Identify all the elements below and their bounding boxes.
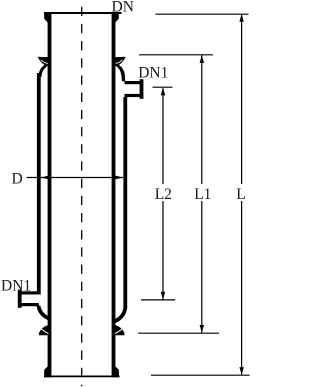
L1 bottom extension line bbox=[138, 332, 219, 334]
clamp coupling bottom-right bbox=[114, 325, 125, 335]
nozzle N1 (left, jacket outlet) top wall bbox=[21, 291, 41, 294]
nozzle N2 (right, jacket inlet) top wall bbox=[125, 81, 142, 84]
svg-text:DN1: DN1 bbox=[1, 278, 31, 295]
L down arrow bbox=[239, 367, 243, 375]
inner tube left wall bbox=[48, 13, 52, 367]
svg-text:L: L bbox=[236, 186, 245, 203]
svg-text:D: D bbox=[12, 170, 23, 187]
L2 top extension line (nozzle N2 centerline) bbox=[153, 86, 173, 88]
jacket left wall bbox=[37, 73, 41, 291]
L2 dimension line bbox=[162, 88, 164, 184]
nozzle N1 flange bbox=[18, 290, 22, 308]
L up arrow bbox=[239, 14, 243, 22]
top flange lip right bbox=[112, 12, 119, 22]
bottom flange lip right bbox=[112, 367, 119, 378]
nozzle N1 bottom wall bbox=[21, 303, 39, 306]
clamp coupling bottom-left bbox=[39, 325, 50, 335]
jacket right wall bbox=[123, 97, 127, 309]
dimension D left arrow bbox=[41, 176, 49, 180]
L bottom extension line bbox=[151, 374, 250, 376]
L1 dimension line bbox=[201, 56, 203, 185]
inner tube right wall bbox=[112, 13, 116, 367]
L top extension line bbox=[156, 13, 249, 15]
top flange lip left bbox=[44, 12, 51, 22]
nozzle N2 flange bbox=[140, 79, 144, 99]
jacket transition top-left (merged with clamp) bbox=[38, 57, 50, 77]
dimension D right arrow bbox=[115, 176, 123, 180]
jacket transition curve bottom-left bbox=[38, 306, 49, 319]
centerline bbox=[81, 7, 83, 387]
svg-text:L2: L2 bbox=[155, 186, 172, 203]
jacket transition curve bottom-right bbox=[115, 308, 126, 321]
L2 bottom extension line (nozzle N1 centerline) bbox=[141, 299, 175, 301]
L2 up arrow bbox=[161, 88, 165, 96]
L dimension line bbox=[241, 15, 243, 185]
vessel top face bbox=[44, 12, 122, 14]
jacket transition top-right (merged with clamp) bbox=[114, 57, 126, 82]
clamp coupling top-right sliver bbox=[116, 60, 123, 64]
L1 down arrow bbox=[200, 325, 204, 333]
svg-text:L1: L1 bbox=[194, 186, 211, 203]
vessel bottom face bbox=[44, 375, 120, 377]
nozzle N2 bottom wall bbox=[125, 94, 142, 97]
dimension D line bbox=[27, 177, 124, 179]
svg-text:DN: DN bbox=[112, 0, 134, 16]
svg-text:DN1: DN1 bbox=[138, 65, 168, 82]
clamp coupling top-left sliver bbox=[41, 60, 48, 64]
L2 down arrow bbox=[161, 292, 165, 300]
L1 up arrow bbox=[200, 55, 204, 63]
L1 top extension line bbox=[139, 54, 213, 56]
bottom flange lip left bbox=[44, 367, 51, 378]
